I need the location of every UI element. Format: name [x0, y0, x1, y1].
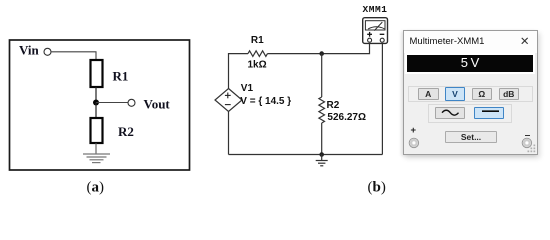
svg-text:V = { 14.5 }: V = { 14.5 }	[240, 96, 291, 107]
resistor R1 (a)	[91, 60, 103, 87]
button V selected	[445, 87, 466, 101]
node Vout junction dot	[93, 100, 99, 106]
dialog title bar	[404, 31, 537, 53]
wire node to R2 top	[95, 103, 97, 119]
svg-text:Vin: Vin	[19, 43, 40, 58]
wire R1 bottom to node Vout	[95, 87, 97, 103]
resistor R2 (a)	[91, 118, 103, 143]
wire top rail (b)	[229, 54, 249, 89]
multimeter dialog window	[403, 30, 538, 155]
plus sign in V1	[225, 93, 231, 99]
wire XMM1 minus down to bottom rail	[381, 42, 383, 154]
svg-text:526.27Ω: 526.27Ω	[327, 112, 366, 123]
ground (a)	[83, 154, 110, 163]
Set button	[445, 131, 497, 144]
group box waveform buttons	[428, 104, 512, 123]
ground (b)	[316, 155, 328, 166]
button A	[418, 88, 439, 100]
XMM1 minus mark	[380, 33, 385, 35]
bottom rail wire (b)	[229, 154, 383, 156]
XMM1 dial arc	[368, 27, 384, 29]
wire Vin terminal to R1 top	[51, 52, 96, 60]
button DC selected	[474, 107, 504, 119]
svg-text:V1: V1	[241, 83, 254, 94]
svg-text:(a): (a)	[87, 180, 105, 196]
XMM1 minus terminal	[380, 38, 384, 42]
button ohm	[472, 88, 493, 100]
svg-text:1kΩ: 1kΩ	[248, 59, 267, 70]
resistor R1 zigzag (b)	[248, 51, 268, 57]
enclosure box of circuit (a)	[10, 40, 190, 170]
wire V1 bottom to bottom rail	[228, 112, 230, 155]
XMM1 plus mark	[367, 32, 372, 37]
svg-text:R2: R2	[118, 124, 134, 139]
resize grip	[527, 144, 536, 153]
terminal Vin	[44, 48, 51, 55]
multimeter XMM1 icon body	[363, 18, 388, 44]
plus terminal socket	[408, 137, 420, 149]
resistor R2 zigzag (b)	[319, 97, 325, 123]
svg-text:(b): (b)	[368, 180, 386, 196]
wire junction down to R2 (b)	[321, 54, 323, 97]
minus sign in V1	[225, 104, 231, 106]
node junction top of R2	[319, 51, 324, 56]
svg-text:R2: R2	[327, 100, 340, 111]
terminal Vout	[128, 99, 135, 106]
measurement display	[405, 53, 535, 75]
svg-text:XMM1: XMM1	[363, 4, 388, 15]
XMM1 needle	[374, 22, 382, 31]
source V1 diamond	[215, 89, 242, 112]
button dB	[499, 88, 520, 100]
wire R2 to bottom rail	[321, 123, 323, 155]
svg-text:R1: R1	[113, 69, 129, 84]
minus terminal label	[525, 135, 530, 137]
group box measurement buttons	[408, 86, 533, 102]
wire node to Vout terminal	[96, 102, 128, 104]
plus terminal label	[411, 126, 417, 135]
wire R1 to XMM1 plus	[268, 42, 370, 53]
minus terminal socket	[521, 137, 533, 149]
button AC sine	[435, 107, 465, 119]
dialog close button	[520, 34, 530, 48]
wire R2 bottom to ground	[95, 143, 97, 154]
XMM1 plus terminal	[368, 38, 372, 42]
XMM1 icon dial window	[365, 21, 385, 30]
svg-text:R1: R1	[251, 35, 264, 46]
node junction ground	[319, 152, 324, 157]
svg-text:Vout: Vout	[144, 97, 171, 112]
